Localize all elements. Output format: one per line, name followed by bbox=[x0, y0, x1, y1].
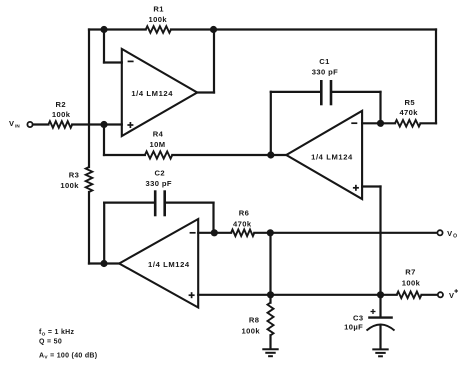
svg-text:R4: R4 bbox=[153, 129, 164, 138]
svg-text:100k: 100k bbox=[149, 15, 168, 24]
svg-text:R5: R5 bbox=[404, 98, 415, 107]
svg-text:10µF: 10µF bbox=[344, 323, 363, 332]
svg-text:10M: 10M bbox=[150, 140, 166, 149]
svg-text:1/4 LM124: 1/4 LM124 bbox=[131, 89, 173, 98]
svg-text:V: V bbox=[449, 291, 454, 300]
svg-text:1/4 LM124: 1/4 LM124 bbox=[148, 260, 190, 269]
svg-text:R2: R2 bbox=[55, 100, 66, 109]
svg-text:1/4 LM124: 1/4 LM124 bbox=[311, 153, 353, 162]
svg-text:330 pF: 330 pF bbox=[312, 68, 338, 77]
svg-text:R8: R8 bbox=[249, 316, 260, 325]
svg-text:470k: 470k bbox=[233, 219, 252, 228]
svg-text:V: V bbox=[9, 119, 14, 128]
svg-text:100k: 100k bbox=[52, 110, 71, 119]
svg-text:V: V bbox=[447, 229, 452, 238]
svg-text:330 pF: 330 pF bbox=[145, 179, 171, 188]
svg-text:100k: 100k bbox=[60, 181, 79, 190]
svg-text:O: O bbox=[453, 234, 457, 240]
svg-text:100k: 100k bbox=[402, 278, 421, 287]
svg-text:IN: IN bbox=[15, 124, 20, 129]
svg-text:R3: R3 bbox=[69, 171, 80, 180]
svg-text:R6: R6 bbox=[239, 209, 250, 218]
svg-text:R7: R7 bbox=[405, 268, 416, 277]
svg-text:Q = 50: Q = 50 bbox=[39, 339, 62, 346]
svg-text:470k: 470k bbox=[399, 108, 418, 117]
svg-text:R1: R1 bbox=[153, 4, 164, 13]
svg-text:100k: 100k bbox=[242, 326, 261, 335]
svg-text:C3: C3 bbox=[353, 314, 364, 323]
svg-text:C1: C1 bbox=[319, 57, 330, 66]
svg-text:C2: C2 bbox=[154, 169, 165, 178]
